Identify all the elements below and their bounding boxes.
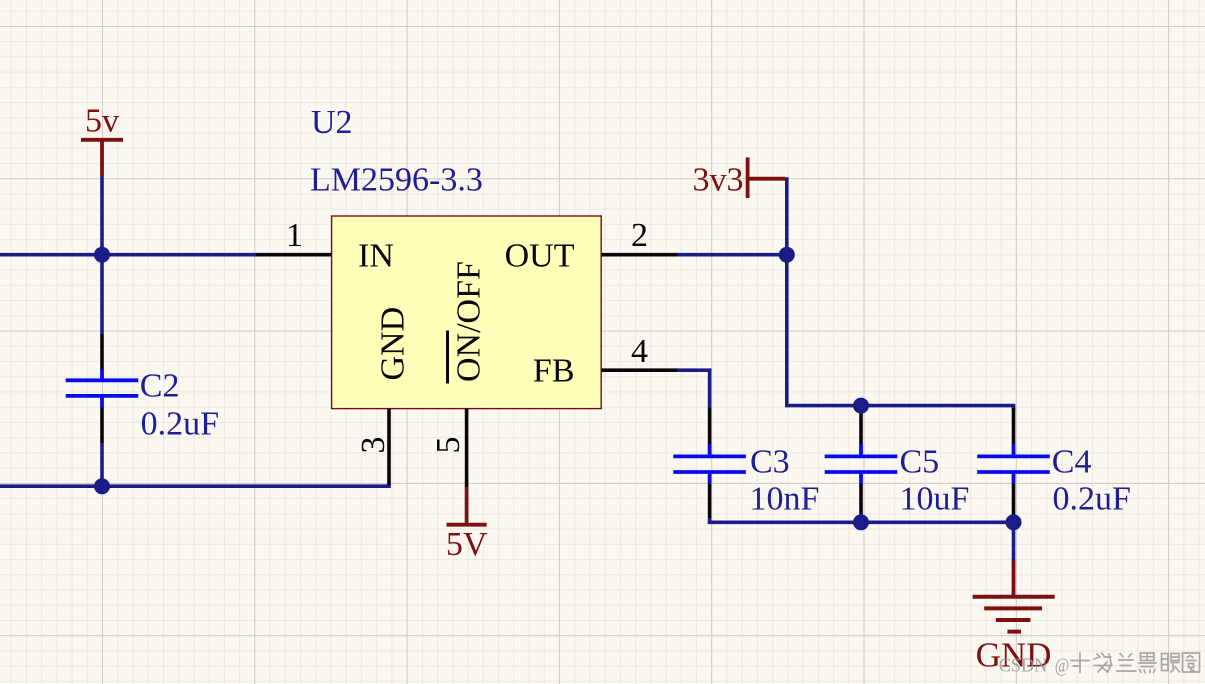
junction node C2/bottom rail <box>94 478 110 494</box>
watermark CJK glyphs <box>1071 653 1200 673</box>
svg-text:0.2uF: 0.2uF <box>141 406 219 443</box>
wire FB vertical <box>708 369 712 408</box>
wire top cap rail <box>785 404 1015 408</box>
svg-text:1: 1 <box>286 217 303 254</box>
svg-text:C4: C4 <box>1052 443 1092 480</box>
wire pin4 FB <box>677 368 711 372</box>
svg-text:2: 2 <box>631 217 648 254</box>
pin 3 <box>387 409 391 485</box>
pin name ON/OFF <box>448 261 488 383</box>
wire 3v3 vertical <box>785 177 789 405</box>
svg-text:3: 3 <box>355 437 392 454</box>
svg-text:5V: 5V <box>446 526 488 563</box>
svg-text:4: 4 <box>631 333 648 370</box>
wire bottom cap rail <box>708 520 1014 524</box>
pin 4 <box>601 368 677 372</box>
svg-text:ON/OFF: ON/OFF <box>451 261 488 382</box>
junction node 5v/wire <box>94 247 110 263</box>
capacitor C5 <box>825 406 898 523</box>
svg-text:5v: 5v <box>85 103 119 140</box>
power port 5v <box>81 103 123 177</box>
junction node bottom rail C5 <box>853 514 869 530</box>
capacitor C2 <box>66 334 139 443</box>
svg-text:CSDN: CSDN <box>999 654 1048 676</box>
capacitor C4 <box>977 406 1050 518</box>
svg-text:C3: C3 <box>750 443 790 480</box>
ground GND <box>973 561 1055 675</box>
svg-text:10uF: 10uF <box>900 480 970 517</box>
power port 3v3 <box>693 157 786 198</box>
capacitor C3 <box>673 407 746 518</box>
svg-text:LM2596-3.3: LM2596-3.3 <box>310 161 483 198</box>
pin 1 <box>256 253 332 257</box>
svg-text:OUT: OUT <box>505 237 575 274</box>
power port 5V bottom <box>446 487 488 563</box>
svg-text:5: 5 <box>430 437 467 454</box>
wire bottom rail left <box>0 484 391 488</box>
wire input net 5v horizontal <box>0 253 256 257</box>
wire pin2 to node 3v3 <box>677 253 787 257</box>
wire C3 to bottom rail <box>708 518 712 524</box>
wire C2 to ground rail <box>100 443 104 486</box>
pin 2 <box>601 253 677 257</box>
IC U2 LM2596-3.3 body <box>332 216 602 409</box>
pin 5 <box>465 409 469 487</box>
svg-text:3v3: 3v3 <box>693 162 744 199</box>
wire C4 to GND <box>1012 518 1016 561</box>
svg-text:@: @ <box>1055 654 1070 676</box>
svg-text:U2: U2 <box>311 104 353 141</box>
svg-text:0.2uF: 0.2uF <box>1053 480 1131 517</box>
svg-text:C2: C2 <box>140 367 180 404</box>
wire 5v vertical <box>100 177 104 335</box>
svg-text:C5: C5 <box>900 443 940 480</box>
junction node out <box>779 247 795 263</box>
watermark CSDN <box>999 654 1070 676</box>
junction node top rail C5 <box>853 398 869 414</box>
svg-text:GND: GND <box>375 307 412 381</box>
svg-text:FB: FB <box>533 352 575 389</box>
svg-text:10nF: 10nF <box>750 480 820 517</box>
junction node bottom rail C4 <box>1006 514 1022 530</box>
svg-text:IN: IN <box>358 237 394 274</box>
